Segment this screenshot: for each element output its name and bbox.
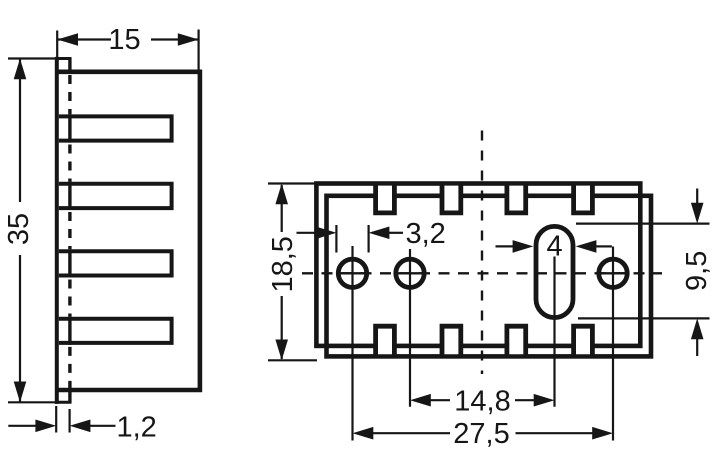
hidden line solid crossing slot 1: [68, 114, 71, 142]
dim 4 right tail: [596, 245, 612, 247]
horizontal centerline: [302, 272, 662, 274]
dim 15 line left segment: [58, 38, 111, 40]
obround slot: [536, 226, 573, 317]
dim 27,5 line left segment: [373, 432, 451, 434]
top notch 2: [442, 182, 461, 213]
hole 1 circle: [338, 259, 366, 287]
dim 1,2 right tail: [90, 425, 116, 427]
svg-text:9,5: 9,5: [681, 251, 713, 291]
svg-text:3,2: 3,2: [406, 218, 446, 250]
hidden line solid crossing slot 2: [68, 182, 71, 210]
obround center vertical / extension: [553, 257, 555, 407]
dim 4 left tail: [496, 245, 515, 247]
dim 35 arrowhead down: [14, 382, 27, 403]
bottom notch 3: [507, 326, 526, 358]
dim 9,5 extension bottom: [578, 317, 710, 319]
dim 3,2 arrowhead pointing left: [369, 227, 390, 240]
hole 2 circle: [396, 259, 424, 287]
dim 18,5 extension bottom: [268, 359, 317, 361]
dim 1,2 extension line right: [68, 409, 70, 433]
svg-text:14,8: 14,8: [454, 386, 510, 418]
dim 9,5 top tail: [696, 189, 698, 205]
svg-text:15: 15: [108, 24, 140, 56]
side view bottom face + extension line: [8, 401, 71, 403]
hidden line dashes seg 3: [68, 212, 71, 249]
dim 14,8 arrowhead pointing right: [534, 394, 555, 407]
dim 1,2 left tail: [8, 425, 37, 427]
fin slot 4: [59, 319, 172, 343]
dim 18,5 line upper segment: [281, 185, 283, 232]
hole 2 center vertical / extension: [409, 249, 411, 407]
dim 15 extension line right: [198, 30, 200, 71]
dim 27,5 arrowhead pointing left: [353, 427, 374, 440]
svg-text:4: 4: [547, 231, 563, 263]
top notch 4: [574, 182, 593, 213]
dim 9,5 bottom tail: [696, 338, 698, 356]
hole 3 center vertical / extension: [612, 247, 614, 441]
hole 3 circle: [599, 259, 627, 287]
hidden line dashes seg 1: [68, 75, 71, 114]
dim 1,2 arrowhead pointing right: [35, 420, 56, 433]
top view rect B: [327, 196, 652, 357]
side view top face + extension line: [8, 57, 71, 59]
side view top-right stub of base plate: [68, 57, 71, 73]
fin slot 3: [59, 251, 172, 275]
dim 27,5 arrowhead pointing right: [592, 427, 613, 440]
dim 3,2 extension line left: [335, 225, 337, 253]
dim 15 extension line left: [56, 31, 58, 67]
bottom notch 4: [574, 326, 593, 358]
centerline dash through hole 2: [398, 272, 423, 274]
dim 3,2 arrowhead pointing right: [316, 227, 337, 240]
fin slot 2: [59, 184, 172, 208]
dim 3,2 left tail: [297, 232, 319, 234]
dim 15 arrowhead left: [57, 33, 78, 46]
dim 35 line upper segment: [19, 59, 21, 203]
vertical centerline: [481, 131, 483, 375]
svg-text:18,5: 18,5: [267, 236, 299, 292]
side view main body outline: [55, 72, 200, 390]
svg-text:1,2: 1,2: [117, 412, 157, 444]
side view bottom-right stub of base plate: [68, 388, 71, 403]
dim 9,5 extension top: [576, 223, 710, 225]
centerline dash through hole 1: [340, 272, 365, 274]
dim 4 arrowhead pointing right: [513, 240, 534, 253]
hidden line solid crossing slot 4: [68, 317, 71, 345]
dim 14,8 line left segment: [430, 399, 450, 401]
bottom notch 1: [376, 326, 395, 358]
svg-text:27,5: 27,5: [453, 418, 509, 450]
hidden line solid crossing slot 3: [68, 249, 71, 277]
dim 1,2 extension line left: [55, 406, 57, 433]
dim 15 arrowhead right: [178, 33, 199, 46]
svg-text:35: 35: [3, 213, 35, 245]
hidden line dashes seg 4: [68, 280, 71, 317]
dim 9,5 arrowhead down: [691, 203, 704, 224]
dim 14,8 arrowhead pointing left: [410, 394, 431, 407]
fin slot 1: [59, 116, 172, 140]
hole 1 center vertical / extension: [351, 246, 353, 441]
top view rect A: [316, 184, 640, 346]
dim 15 line right segment: [151, 38, 198, 40]
dim 18,5 extension top: [268, 182, 317, 184]
dim 35 line lower segment: [19, 255, 21, 402]
top notch 3: [507, 182, 526, 213]
centerline dash through hole 3: [601, 272, 626, 274]
dim 14,8 line right segment: [515, 399, 535, 401]
dim 1,2 arrowhead pointing left: [70, 420, 91, 433]
dim 35 arrowhead up: [14, 59, 27, 80]
top notch 1: [376, 182, 395, 213]
dim 27,5 line right segment: [516, 432, 595, 434]
dim 3,2 right tail: [389, 232, 403, 234]
bottom notch 2: [442, 326, 461, 358]
dim 18,5 line lower segment: [281, 296, 283, 359]
side view base plate left edge: [55, 57, 59, 404]
dim 4 arrowhead pointing left: [576, 240, 597, 253]
dim 18,5 arrowhead up: [275, 184, 288, 205]
hidden line dashes seg 5: [68, 347, 71, 388]
dim 18,5 arrowhead down: [275, 340, 288, 361]
hidden line dashes seg 2: [68, 145, 71, 182]
dim 9,5 arrowhead up: [691, 318, 704, 339]
dim 3,2 extension line right: [368, 225, 370, 253]
